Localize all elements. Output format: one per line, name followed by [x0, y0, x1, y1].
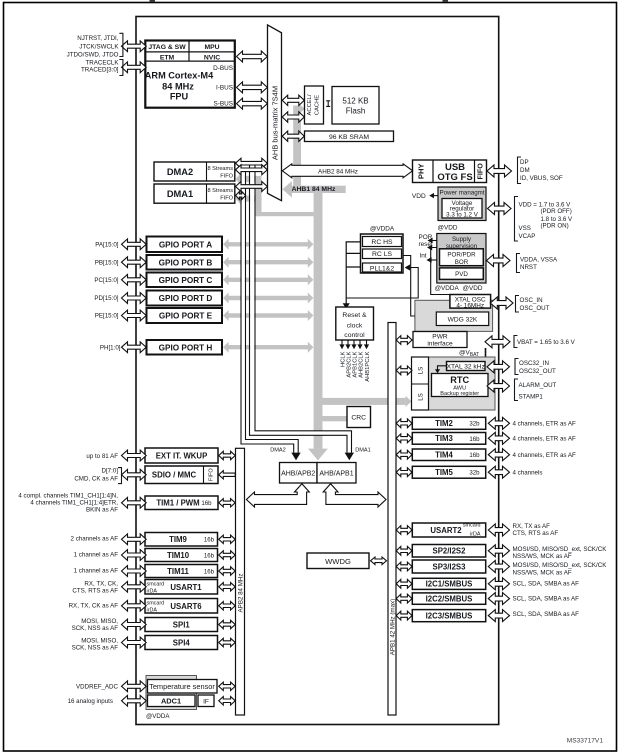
svg-text:PLL1&2: PLL1&2	[370, 265, 394, 272]
wire right pin arrow y=472.2	[488, 466, 509, 478]
wire RC LS to watchdog	[404, 256, 415, 317]
SPI1 block	[145, 618, 218, 632]
clock output APB1CLK	[353, 340, 355, 345]
wire peripheral to APB2 y=502.75	[219, 499, 236, 507]
wire gray AHB1 left arrowhead at bus matrix	[282, 181, 292, 198]
APB1 bus	[388, 323, 396, 716]
svg-text:4 channels, ETR as AF: 4 channels, ETR as AF	[513, 436, 576, 443]
svg-text:AHB2 84 MHz: AHB2 84 MHz	[318, 168, 358, 175]
svg-text:PWR: PWR	[432, 334, 448, 341]
svg-text:AHB bus-matrix 7S4M: AHB bus-matrix 7S4M	[270, 86, 279, 160]
svg-text:VDDREF_ADC: VDDREF_ADC	[76, 684, 118, 691]
wire gray DMA link vertical	[256, 176, 262, 216]
wire gray AHB1 84 MHz horizontal shaft	[290, 186, 346, 193]
SP2/I2S2 block	[412, 545, 485, 558]
svg-text:DMA1: DMA1	[355, 448, 371, 454]
svg-text:BKIN as AF: BKIN as AF	[86, 507, 118, 514]
svg-text:1 channel as AF: 1 channel as AF	[74, 567, 119, 574]
wire left pin arrow y=605.75	[122, 600, 147, 611]
wire APB1 to peripheral y=530.0	[396, 526, 412, 535]
SDIO / MMC block	[145, 466, 218, 484]
bracket ALARM	[515, 379, 519, 401]
WDG 32K block	[436, 312, 488, 326]
wire left pin arrow y=46.2	[122, 41, 147, 52]
clock output APB2CLK	[347, 340, 349, 345]
bracket VBAT	[514, 336, 518, 348]
wire left pin arrow y=624.5	[122, 619, 147, 630]
wire right pin arrow y=303.0	[490, 297, 513, 309]
wire gray arrow into ACCEL/CACHE	[299, 104, 305, 114]
APB2 bus	[236, 448, 245, 715]
wire right pin arrow y=530.0	[488, 524, 509, 536]
svg-text:FIFO: FIFO	[476, 163, 485, 180]
wire left pin arrow y=586.75	[122, 581, 147, 592]
bracket TRACE	[119, 60, 123, 76]
svg-text:JTDO/SWD, JTDO: JTDO/SWD, JTDO	[67, 51, 119, 58]
LS boxes column	[412, 357, 429, 410]
svg-text:TRACECLK: TRACECLK	[85, 59, 119, 66]
USART2 block	[412, 523, 485, 537]
SPI4 block	[145, 636, 218, 650]
bracket DP/DM	[518, 157, 522, 184]
wire APB1 to peripheral y=454.7	[396, 450, 412, 459]
wire gray flash-path vertical	[293, 106, 301, 186]
chip boundary	[136, 17, 499, 725]
Reset & clock control block	[336, 307, 374, 340]
wire APB1 to peripheral y=550.8	[396, 546, 412, 555]
bracket OSC32	[515, 359, 519, 375]
svg-text:512 KB: 512 KB	[342, 96, 368, 105]
svg-text:DP: DP	[520, 159, 529, 166]
wire I-BUS to bus matrix	[237, 82, 268, 93]
svg-text:I2C3/SMBUS: I2C3/SMBUS	[426, 611, 473, 620]
wire left pin arrow y=686.3	[122, 681, 147, 692]
svg-text:reset: reset	[418, 241, 432, 248]
svg-text:EXT IT. WKUP: EXT IT. WKUP	[156, 451, 208, 460]
svg-text:STAMP1: STAMP1	[519, 394, 544, 401]
bus arrow AHB/APB1 to APB1	[323, 484, 386, 507]
GPIO PORT C block	[147, 273, 223, 288]
wire left pin arrow y=67.3	[122, 62, 147, 73]
svg-text:SCK, NSS as AF: SCK, NSS as AF	[72, 625, 119, 632]
wire WWDG to APB1	[371, 557, 387, 565]
svg-text:GPIO PORT B: GPIO PORT B	[159, 258, 213, 267]
wire right pin arrow y=171.0	[487, 165, 512, 177]
svg-text:OSC_OUT: OSC_OUT	[520, 305, 550, 312]
bracket VDD	[515, 197, 519, 242]
GPIO PORT A block	[147, 237, 223, 253]
ADC1 block	[148, 695, 196, 707]
svg-text:FPU: FPU	[170, 92, 189, 102]
wire APB1 to peripheral y=566.5	[396, 562, 412, 571]
DMA2 block	[154, 162, 235, 181]
svg-text:OSC32_OUT: OSC32_OUT	[519, 368, 556, 375]
svg-text:PHY: PHY	[417, 163, 426, 179]
svg-text:FIFO: FIFO	[220, 174, 233, 180]
svg-text:MOSI/SD, MISO/SD_ext, SCK/CK: MOSI/SD, MISO/SD_ext, SCK/CK	[513, 562, 608, 569]
wire left pin arrow y=474.75	[122, 469, 147, 480]
svg-text:Flash: Flash	[346, 106, 366, 115]
wire left pin arrow y=539.3	[122, 534, 147, 545]
wire left pin arrow y=315.5	[122, 310, 147, 321]
wire DMA2 to bus matrix upper	[236, 158, 268, 168]
svg-text:SP3/I2S3: SP3/I2S3	[433, 562, 467, 571]
svg-text:4 compl. channels TIM1_CH1[1:4: 4 compl. channels TIM1_CH1[1:4]N,	[18, 493, 118, 500]
wire APB1 to peripheral y=340.0	[396, 336, 412, 345]
wire left pin arrow y=502.75	[122, 497, 147, 508]
svg-text:AHB1 84 MHz: AHB1 84 MHz	[292, 186, 336, 193]
wire left pin arrow y=455.5	[122, 450, 147, 461]
svg-text:TIM2: TIM2	[435, 419, 453, 428]
wire gray arrow into DMA2	[240, 176, 256, 182]
svg-text:DM: DM	[520, 167, 530, 174]
wire bus matrix to ACCEL upper	[282, 95, 304, 105]
TIM10 block	[145, 549, 218, 562]
svg-text:TIM4: TIM4	[435, 451, 453, 460]
svg-text:SDIO / MMC: SDIO / MMC	[152, 471, 197, 480]
svg-text:CRC: CRC	[351, 415, 366, 422]
wire peripheral to APB2 y=571.0	[219, 567, 236, 575]
bus arrow AHB/APB2 to APB2	[246, 484, 309, 507]
svg-text:CTS, RTS as AF: CTS, RTS as AF	[513, 530, 559, 537]
wire gray AHB1 trunk arrowhead into AHB/APB1 bridge	[308, 449, 328, 461]
wire gray AHB1 trunk vertical	[314, 190, 323, 449]
wire gray bus GPIO PORT B to AHB1	[223, 257, 313, 268]
svg-text:1 channel as AF: 1 channel as AF	[74, 551, 119, 558]
svg-text:RX, TX, CK,: RX, TX, CK,	[84, 580, 118, 587]
svg-text:RX, TX, CK as AF: RX, TX, CK as AF	[69, 603, 119, 610]
svg-text:GPIO PORT C: GPIO PORT C	[159, 276, 213, 285]
DMA1 block	[154, 184, 235, 203]
svg-text:SPI1: SPI1	[173, 620, 191, 629]
backup domain gray container	[428, 357, 495, 410]
TIM4 block	[412, 449, 485, 461]
svg-text:PVD: PVD	[455, 271, 468, 278]
svg-text:POR: POR	[418, 234, 432, 241]
svg-text:DMA2: DMA2	[270, 448, 286, 454]
svg-text:Reset &: Reset &	[342, 312, 367, 319]
svg-text:USART2: USART2	[430, 526, 462, 535]
svg-text:USART1: USART1	[170, 583, 202, 592]
IF block	[198, 695, 214, 707]
svg-text:D-BUS: D-BUS	[213, 65, 233, 72]
svg-text:PH[1:0]: PH[1:0]	[100, 344, 121, 351]
svg-text:irDA: irDA	[147, 589, 158, 595]
wire APB1 to peripheral y=583.8	[396, 579, 412, 588]
svg-text:4- 16MHz: 4- 16MHz	[456, 303, 484, 310]
svg-text:PE[15:0]: PE[15:0]	[95, 313, 119, 320]
bracket SDIO pins	[118, 468, 122, 484]
wire peripheral to APB2 y=642.5	[219, 638, 236, 646]
PWR interface block	[413, 332, 467, 348]
wire VBAT down to backup domain	[485, 348, 487, 357]
96 KB SRAM block	[305, 131, 394, 142]
svg-text:4 channels TIM1_CH1[1:4]ETR,: 4 channels TIM1_CH1[1:4]ETR,	[30, 500, 118, 507]
svg-text:XTAL 32 kHz: XTAL 32 kHz	[447, 363, 485, 370]
wire APB1 to peripheral y=370.4	[396, 366, 412, 375]
AHB/APB2 bridge block	[280, 463, 318, 484]
svg-text:ALARM_OUT: ALARM_OUT	[519, 382, 557, 389]
svg-text:@VDDA: @VDDA	[370, 226, 395, 233]
svg-text:Int: Int	[419, 252, 426, 259]
wire Int from POR/PDR	[430, 259, 440, 261]
svg-text:Backup register: Backup register	[440, 391, 479, 397]
svg-text:VSS: VSS	[519, 225, 531, 232]
TIM5 block	[412, 466, 485, 478]
svg-text:AHB/APB1: AHB/APB1	[319, 470, 353, 477]
svg-text:smcard: smcard	[147, 582, 165, 588]
wire left pin arrow y=555.0	[122, 550, 147, 561]
svg-text:DMA2: DMA2	[167, 167, 193, 177]
svg-text:ACCEL/: ACCEL/	[307, 94, 313, 115]
svg-text:ADC1: ADC1	[161, 697, 181, 706]
wire APB1 to peripheral y=472.2	[396, 468, 412, 477]
svg-text:16b: 16b	[204, 537, 215, 544]
svg-text:NSS/WS, MCK as AF: NSS/WS, MCK as AF	[513, 570, 572, 577]
TIM1 / PWM block	[145, 496, 218, 510]
PLL1&2 block	[363, 263, 402, 272]
svg-text:VDDA, VSSA: VDDA, VSSA	[520, 256, 558, 263]
svg-text:smcard: smcard	[463, 522, 481, 528]
wire right pin arrow y=454.7	[488, 449, 509, 461]
wire peripheral to APB2 y=700.75	[219, 697, 236, 706]
wire APB1 to peripheral y=423.3	[396, 419, 412, 428]
wire POR reset upper	[431, 240, 437, 242]
svg-text:LS: LS	[417, 393, 424, 401]
RC HS block	[363, 237, 402, 247]
svg-text:MPU: MPU	[204, 44, 219, 51]
svg-text:IF: IF	[203, 699, 209, 706]
bracket VDDA	[517, 254, 521, 273]
svg-text:FIFO: FIFO	[209, 468, 215, 481]
svg-text:RC LS: RC LS	[372, 251, 392, 258]
I2C3/SMBUS block	[412, 610, 485, 622]
svg-text:control: control	[344, 332, 365, 339]
wire NVIC to bus matrix	[237, 51, 268, 62]
svg-text:SCL, SDA, SMBA as AF: SCL, SDA, SMBA as AF	[513, 611, 580, 618]
svg-text:OTG FS: OTG FS	[437, 172, 472, 183]
svg-text:I2C2/SMBUS: I2C2/SMBUS	[426, 594, 473, 603]
svg-text:interface: interface	[427, 341, 453, 348]
wire left pin arrow y=700.75	[122, 695, 147, 706]
wire peripheral to APB2 y=686.3	[219, 682, 236, 690]
svg-text:MS33717V1: MS33717V1	[567, 738, 604, 745]
svg-text:ID, VBUS, SOF: ID, VBUS, SOF	[520, 175, 563, 182]
svg-text:JTAG & SW: JTAG & SW	[148, 44, 186, 51]
svg-text:JTCK/SWCLK: JTCK/SWCLK	[79, 43, 119, 50]
wire right pin arrow y=260.5	[487, 255, 511, 267]
wire right pin arrow y=341.8	[485, 336, 510, 348]
CRC block	[347, 407, 371, 428]
svg-text:S-BUS: S-BUS	[213, 100, 233, 107]
svg-text:@VDDA: @VDDA	[146, 713, 170, 720]
wire right pin arrow y=583.8	[488, 578, 509, 590]
svg-text:OSC_IN: OSC_IN	[520, 297, 543, 304]
wire right pin arrow y=423.3	[488, 417, 509, 429]
svg-text:3.3 to 1.2 V: 3.3 to 1.2 V	[446, 212, 479, 219]
svg-text:USB: USB	[445, 162, 465, 173]
svg-text:@VDD: @VDD	[438, 224, 458, 231]
wire DMA1 bus white interior	[252, 166, 349, 452]
analog gray container	[146, 676, 197, 710]
svg-text:16 analog inputs: 16 analog inputs	[68, 698, 113, 705]
wire right pin arrow y=598.6	[488, 593, 509, 605]
svg-text:APB2 84 MHz: APB2 84 MHz	[237, 574, 244, 613]
GPIO PORT D block	[147, 291, 223, 306]
RTC block	[432, 374, 489, 397]
wire peripheral to APB2 y=555.0	[219, 551, 236, 559]
wire S-BUS to bus matrix	[237, 98, 268, 109]
svg-text:Power managmt: Power managmt	[439, 190, 484, 197]
svg-text:32b: 32b	[469, 470, 480, 477]
wire bus matrix to SRAM	[282, 131, 304, 141]
GPIO PORT E block	[147, 308, 223, 323]
svg-text:clock: clock	[347, 323, 363, 330]
svg-text:(PDR ON): (PDR ON)	[541, 223, 569, 230]
svg-text:ARM Cortex-M4: ARM Cortex-M4	[145, 71, 214, 81]
wire APB1 to peripheral y=615.6	[396, 611, 412, 620]
svg-text:NRST: NRST	[520, 264, 537, 271]
cut-off title text fragments	[150, 0, 156, 2]
svg-text:SP2/I2S2: SP2/I2S2	[433, 547, 467, 556]
wire DMA2 to bus matrix lower	[236, 165, 268, 175]
svg-text:@VDD: @VDD	[463, 285, 483, 292]
svg-text:CACHE: CACHE	[314, 95, 320, 115]
svg-text:smcard: smcard	[147, 601, 165, 607]
I2C2/SMBUS block	[412, 593, 485, 604]
RC LS block	[363, 249, 402, 259]
wire DMA1 to DMA2-bus	[236, 192, 246, 200]
svg-text:TIM11: TIM11	[167, 567, 189, 576]
wire right pin arrow y=386.0	[487, 380, 510, 392]
svg-text:AHB/APB2: AHB/APB2	[281, 470, 315, 477]
svg-text:SCK, NSS as AF: SCK, NSS as AF	[72, 644, 119, 651]
svg-text:VDD: VDD	[412, 193, 426, 200]
wire left pin arrow y=279.8	[122, 274, 147, 285]
svg-text:16b: 16b	[201, 500, 212, 507]
svg-text:NSS/WS, MCK as AF: NSS/WS, MCK as AF	[513, 553, 572, 560]
svg-text:96 KB SRAM: 96 KB SRAM	[329, 134, 369, 141]
wire peripheral to APB2 y=539.3	[219, 535, 236, 543]
svg-text:VCAP: VCAP	[519, 233, 536, 240]
svg-text:PC[15:0]: PC[15:0]	[94, 277, 118, 284]
AHB/APB1 bridge block	[317, 463, 356, 484]
svg-text:AHB2CLK: AHB2CLK	[358, 351, 364, 378]
svg-text:16b: 16b	[469, 436, 480, 443]
svg-text:TIM10: TIM10	[167, 551, 190, 560]
svg-text:MOSI/SD, MISO/SD_ext, SCK/CK: MOSI/SD, MISO/SD_ext, SCK/CK	[513, 546, 608, 553]
wire right pin arrow y=615.6	[488, 610, 509, 622]
WWDG block	[307, 553, 369, 569]
svg-text:PA[15:0]: PA[15:0]	[95, 242, 119, 249]
wire gray bus GPIO PORT D to AHB1	[223, 293, 313, 304]
svg-text:@VDDA: @VDDA	[435, 285, 460, 292]
wire peripheral to APB2 y=455.5	[219, 451, 236, 459]
svg-text:16b: 16b	[204, 568, 215, 575]
svg-text:D[7:0]: D[7:0]	[101, 468, 118, 475]
svg-text:8 Streams: 8 Streams	[208, 166, 234, 172]
svg-text:WDG 32K: WDG 32K	[448, 316, 478, 323]
TIM3 block	[412, 433, 485, 445]
wire POR reset lower / to XTAL OSC	[431, 248, 450, 295]
svg-text:4 channels, ETR as AF: 4 channels, ETR as AF	[513, 421, 576, 428]
wire left pin arrow y=298.0	[122, 293, 147, 304]
wire APB1 to peripheral y=438.3	[396, 434, 412, 443]
I2C1/SMBUS block	[412, 578, 485, 589]
svg-text:RC HS: RC HS	[371, 239, 393, 246]
svg-text:84 MHz: 84 MHz	[162, 82, 194, 92]
wire gray bus GPIO PORT E to AHB1	[223, 310, 313, 321]
svg-text:MOSI, MISO,: MOSI, MISO,	[81, 637, 118, 644]
wire gray branch to CRC	[323, 416, 348, 421]
svg-text:NVIC: NVIC	[204, 54, 220, 61]
svg-text:16b: 16b	[469, 452, 480, 459]
TIM11 block	[145, 565, 218, 578]
wire gray bus GPIO PORT C to AHB1	[223, 274, 313, 285]
wire APB2 to SDIO (single)	[219, 471, 236, 479]
wire peripheral to APB2 y=624.5	[219, 620, 236, 628]
svg-text:GPIO PORT E: GPIO PORT E	[159, 312, 213, 321]
wire right pin arrow y=550.8	[488, 545, 509, 557]
wire AHB2 84 MHz bus	[282, 164, 412, 178]
wire DMA1 to bus matrix	[236, 182, 268, 192]
svg-text:DMA1: DMA1	[167, 189, 193, 199]
wire left pin arrow y=642.5	[122, 637, 147, 648]
GPIO PORT B block	[147, 255, 223, 270]
AHB bus-matrix 7S4M	[268, 25, 282, 201]
svg-text:ETM: ETM	[160, 54, 175, 61]
svg-text:TIM9: TIM9	[169, 535, 187, 544]
Supply supervision block	[437, 234, 486, 284]
wire gray bus GPIO PORT H to AHB1	[223, 342, 313, 353]
TIM2 block	[412, 417, 485, 429]
svg-text:TIM5: TIM5	[435, 468, 453, 477]
wire RC clock collector to Reset&clock	[346, 242, 360, 304]
svg-text:TIM3: TIM3	[435, 434, 453, 443]
wire DMA2 bus (to AHB/APB2)	[241, 171, 294, 453]
wire left pin arrow y=571.0	[122, 566, 147, 577]
USB OTG FS block	[413, 160, 487, 183]
clock output AHB2CLK	[359, 340, 361, 345]
svg-text:I2C1/SMBUS: I2C1/SMBUS	[426, 580, 473, 589]
wire left pin arrow y=347.2	[122, 342, 147, 353]
svg-text:GPIO PORT D: GPIO PORT D	[159, 294, 213, 303]
svg-text:OSC32_IN: OSC32_IN	[519, 360, 549, 367]
Temperature sensor block	[148, 680, 218, 694]
wire right pin arrow y=366.8	[487, 361, 510, 373]
svg-text:16b: 16b	[204, 552, 215, 559]
bracket OSC	[516, 296, 520, 313]
bracket JTAG	[119, 33, 123, 56]
svg-text:RTC: RTC	[450, 375, 469, 385]
svg-text:APB1 42 MHz (max): APB1 42 MHz (max)	[389, 599, 396, 655]
wire gray bus GPIO PORT A to AHB1	[223, 239, 313, 250]
wire left pin arrow y=262.2	[122, 257, 147, 268]
wire right pin arrow y=438.3	[488, 432, 509, 444]
wire gray DMA link to trunk	[256, 212, 314, 216]
svg-text:I-BUS: I-BUS	[216, 85, 233, 92]
svg-text:FIFO: FIFO	[220, 196, 233, 202]
clock output AHB1PCLK	[366, 340, 368, 345]
svg-text:TIM1 / PWM: TIM1 / PWM	[156, 499, 199, 508]
svg-text:GPIO PORT A: GPIO PORT A	[159, 240, 212, 249]
XTAL 32 kHz block	[447, 362, 486, 371]
svg-text:TRACED[3:0]: TRACED[3:0]	[81, 67, 119, 74]
wire XTAL32 to RTC	[438, 366, 447, 370]
svg-text:32b: 32b	[469, 421, 480, 428]
svg-text:irDA: irDA	[470, 532, 481, 538]
svg-text:NJTRST, JTDI,: NJTRST, JTDI,	[77, 35, 119, 42]
